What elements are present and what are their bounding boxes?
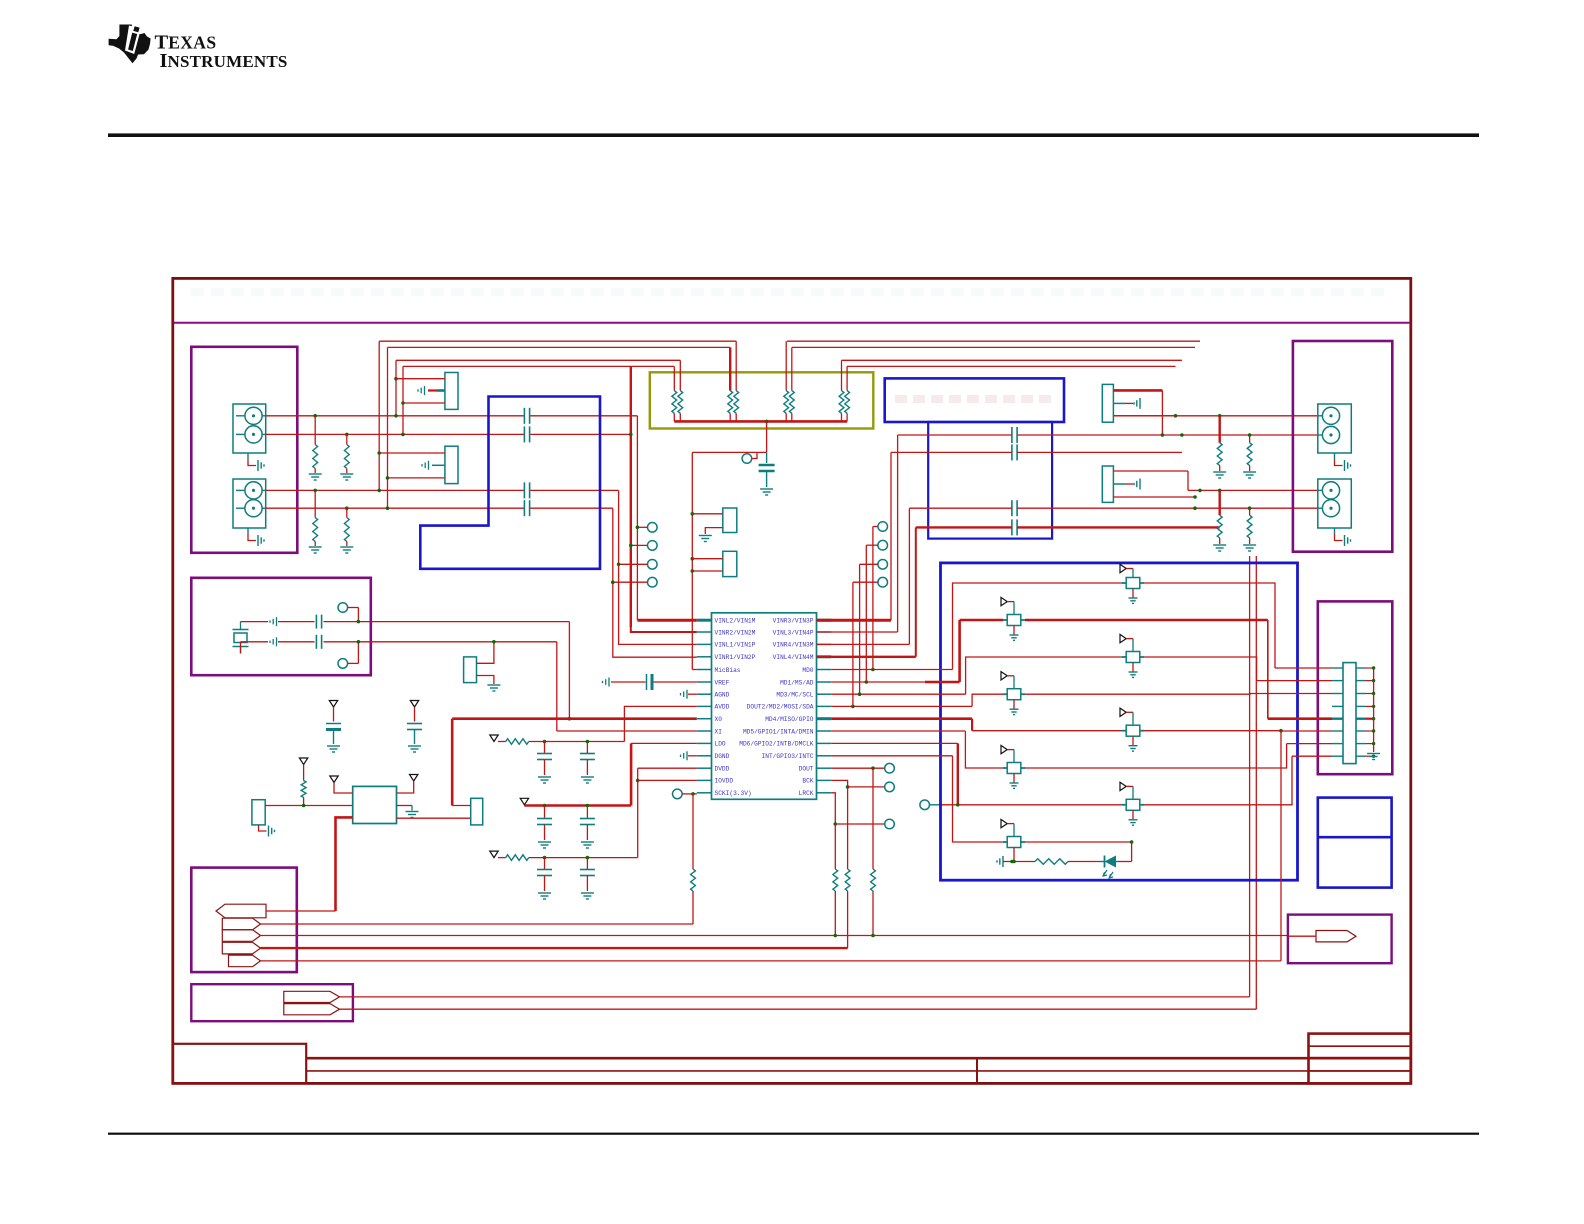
RCA jack J2 bbox=[233, 479, 266, 528]
LRCK pulldown R9 bbox=[834, 824, 836, 869]
regulator U2 bbox=[353, 786, 397, 823]
U1 right pin stub DOUT bbox=[817, 767, 832, 769]
svg-text:MicBias: MicBias bbox=[715, 667, 741, 674]
U1 left pin stub DGND bbox=[697, 755, 712, 757]
svg-text:MD1/MS/AD: MD1/MS/AD bbox=[780, 679, 814, 686]
FB1 right stub bbox=[1140, 582, 1144, 584]
H9 pin1 wire bbox=[1113, 470, 1188, 472]
title block rows bbox=[306, 1057, 1411, 1060]
H4 pin1 wire bbox=[692, 558, 723, 560]
FB6 right stub bbox=[1021, 767, 1025, 769]
IOVDD wire bbox=[638, 779, 697, 781]
header H5 (osc jumper) bbox=[464, 657, 477, 683]
U1 right pin stub LRCK bbox=[817, 792, 832, 794]
MD3 wire bbox=[831, 693, 965, 695]
arrow wire 1 bbox=[340, 996, 1250, 998]
bias resistor R1 bbox=[313, 414, 317, 418]
arrow right feed wire bbox=[1288, 935, 1316, 937]
svg-text:BCK: BCK bbox=[802, 778, 813, 785]
bus row D right bbox=[847, 365, 1176, 367]
arrow riser 2 bbox=[1255, 556, 1257, 1009]
aux group box (blue 2-row) bbox=[1318, 798, 1392, 888]
svg-text:XI: XI bbox=[715, 728, 723, 735]
bus drop wire 2 bbox=[387, 347, 389, 508]
micbias TP circle bbox=[742, 454, 752, 464]
crystal row2 gnd sym bbox=[269, 641, 271, 643]
J5 row 5 wire bbox=[1268, 717, 1332, 720]
H3 pin1 wire bbox=[692, 513, 723, 515]
bus row D left bbox=[403, 365, 674, 367]
RCA jack J4 bbox=[1318, 479, 1352, 528]
crystal row2 wire bbox=[241, 641, 269, 643]
net flag net3 bbox=[222, 930, 260, 942]
J3 ground bbox=[1334, 453, 1336, 459]
test point TP3 bbox=[648, 560, 658, 570]
U1 right pin stub INT/GPIO3/INTC bbox=[817, 755, 832, 757]
svg-text:VINL4/VIN4M: VINL4/VIN4M bbox=[773, 654, 814, 661]
MD1 riser thick bbox=[958, 620, 961, 682]
coupling cap C1 bbox=[523, 408, 525, 424]
RCA jack J1 bbox=[233, 404, 266, 453]
wire J1 ring row bbox=[266, 433, 525, 435]
FB3 left stub bbox=[1122, 656, 1126, 658]
bias resistor pair 4 bbox=[841, 360, 843, 390]
test point TP4 bbox=[648, 577, 658, 587]
arrow tag 1 bbox=[284, 991, 340, 1002]
U1 right pin stub VINL4/VIN4M bbox=[817, 655, 832, 658]
FB8 gnd bbox=[1013, 848, 1015, 862]
net flag VIN bbox=[216, 904, 266, 918]
U2 output wire bbox=[397, 817, 471, 819]
DGND gnd sym bbox=[680, 755, 682, 757]
MD4 riser bbox=[971, 719, 973, 731]
FB1 flag bbox=[1120, 564, 1126, 572]
svg-text:AGND: AGND bbox=[715, 692, 730, 699]
MD0 to FB1 bbox=[953, 583, 1123, 670]
H4 pin2 wire bbox=[692, 570, 723, 572]
J5 row5 riser bbox=[1267, 620, 1269, 719]
output jacks group box (right) bbox=[1293, 341, 1392, 552]
VINR4 drop bbox=[908, 508, 910, 644]
cap C10 bbox=[1011, 444, 1013, 460]
cap C11 bbox=[1011, 500, 1013, 516]
ferrite jumper FB1 bbox=[1126, 578, 1140, 589]
FB7 flag bbox=[1120, 782, 1126, 790]
XO branch vertical bbox=[451, 719, 454, 806]
wire ring1 right row bbox=[898, 434, 1012, 436]
header H8 bbox=[1102, 384, 1113, 422]
U2 bottom-left output thick bbox=[336, 817, 353, 911]
FB6 out bbox=[1025, 744, 1287, 768]
H8 pin1 thick wire bbox=[1113, 389, 1162, 392]
svg-text:DOUT: DOUT bbox=[799, 766, 814, 773]
AVDD cap Ca2 bbox=[586, 740, 590, 744]
H1 pin1 wire bbox=[396, 378, 445, 380]
wire J2 ring row bbox=[266, 507, 525, 509]
header H4 bbox=[723, 551, 737, 576]
header H9 bbox=[1102, 466, 1113, 502]
bias resistor R3 bbox=[313, 489, 317, 493]
J5 row 6 wire bbox=[1281, 730, 1332, 732]
FB5 gnd bbox=[1132, 736, 1134, 746]
FB2 right thick bbox=[1025, 619, 1268, 622]
faint title text strip bbox=[191, 288, 204, 296]
FB1 gnd bbox=[1132, 589, 1134, 599]
ferrite jumper FB7 bbox=[1126, 799, 1140, 810]
bias resistor R2 bbox=[345, 433, 349, 437]
MD0 wire bbox=[831, 669, 952, 671]
U1 right pin stub MD4/MISO/GPIO bbox=[817, 717, 832, 720]
bulk cap Cd2 bbox=[410, 701, 418, 708]
U1 left pin stub VINL1/VIN1P bbox=[697, 643, 712, 645]
crystal terminal TP circle bottom bbox=[338, 659, 348, 669]
XO thick row bbox=[452, 717, 697, 720]
FB8 flag bbox=[1001, 819, 1007, 827]
H2 pin1 wire bbox=[379, 452, 445, 454]
svg-text:X0: X0 bbox=[715, 716, 723, 723]
test point TP2 bbox=[648, 541, 658, 551]
MD1 wire bbox=[831, 681, 925, 683]
J5 row 8 right stub bbox=[1356, 755, 1366, 757]
J5 row 8 wire bbox=[1292, 755, 1332, 757]
H3 pin2 gnd bbox=[705, 528, 723, 534]
VINR3 drop bbox=[890, 452, 892, 620]
output header H7 bbox=[471, 798, 483, 825]
FB5 riser down bbox=[1280, 731, 1282, 961]
ferrite jumper FB6 bbox=[1007, 763, 1021, 774]
SCKI TP circle bbox=[673, 789, 683, 799]
net flag wire 2 bbox=[261, 923, 694, 925]
svg-text:VREF: VREF bbox=[715, 679, 730, 686]
FB6 left stub bbox=[1003, 767, 1007, 769]
test point TP1 bbox=[648, 523, 658, 533]
connector J5 body bbox=[1343, 663, 1356, 764]
J5 row 3 right stub bbox=[1356, 693, 1366, 695]
FB7 right stub bbox=[1140, 804, 1144, 806]
term resistor R11 bbox=[1249, 435, 1251, 443]
crystal row1 gnd sym bbox=[269, 620, 271, 622]
H5 pin1 wire bbox=[477, 642, 494, 664]
U1 right pin stub MD1/MS/AD bbox=[817, 681, 832, 683]
bus row B right bbox=[792, 346, 1195, 348]
LDO cap Cb2 bbox=[586, 804, 590, 808]
J5 row 1 left stub bbox=[1332, 667, 1343, 669]
BCK wire and TP bbox=[831, 780, 847, 787]
AVDD series resistor bbox=[506, 739, 529, 745]
U1 left pin stub XI bbox=[697, 730, 712, 732]
FB3 flag bbox=[1120, 634, 1126, 642]
FB8 left stub bbox=[1003, 841, 1007, 843]
wire XI net vertical bbox=[556, 642, 558, 731]
TP5 bbox=[878, 522, 888, 532]
FB6 flag bbox=[1001, 745, 1007, 753]
wire XI row bbox=[557, 730, 697, 732]
svg-text:DGND: DGND bbox=[715, 753, 730, 760]
crystal Y1 bbox=[233, 629, 249, 631]
micbias vertical bbox=[691, 452, 693, 669]
LRCK wire and TP bbox=[831, 793, 835, 824]
FB2 right stub bbox=[1021, 619, 1025, 621]
wire ring2 right row bbox=[909, 507, 1012, 509]
wire VINR1 drop bbox=[613, 508, 697, 657]
H8 pin3 wire bbox=[1113, 415, 1175, 417]
MD5 to FB6 bbox=[965, 731, 1003, 768]
FB7 gnd bbox=[1132, 810, 1134, 820]
micbias wire bbox=[692, 451, 766, 453]
bus row C right bbox=[842, 359, 1182, 361]
svg-text:DOUT2/MD2/MOSI/SDA: DOUT2/MD2/MOSI/SDA bbox=[747, 704, 814, 711]
MD6 wire bbox=[831, 742, 958, 744]
J5 right bus bbox=[1373, 668, 1375, 752]
pullup resistor R5 bbox=[299, 758, 307, 765]
U1 left pin stub SCKI(3.3V) bbox=[697, 792, 712, 794]
AVDD vertical bbox=[624, 706, 696, 741]
coupling cap C3 bbox=[523, 482, 525, 498]
DMIC group box (blue, top) bbox=[885, 378, 1064, 422]
ferrite jumper FB8 bbox=[1007, 837, 1021, 848]
DVDD rail bbox=[498, 857, 506, 859]
U1 right pin stub VINR4/VIN3M bbox=[817, 643, 832, 645]
U1 right pin stub MD3/MC/SCL bbox=[817, 693, 832, 695]
control header group box (purple) bbox=[1318, 601, 1393, 774]
net flag wire 5 bbox=[261, 960, 1282, 962]
TP8 bbox=[878, 577, 888, 587]
J5 row 3 left stub bbox=[1332, 693, 1343, 695]
TP7 bbox=[878, 560, 888, 570]
net flag wire 4 thick bbox=[261, 947, 848, 949]
svg-text:AVDD: AVDD bbox=[715, 704, 730, 711]
crystal group box bbox=[191, 578, 370, 675]
level shifter group box (big blue) bbox=[941, 563, 1298, 880]
VINL3 drop bbox=[897, 435, 899, 632]
U1 left pin stub MicBias bbox=[697, 669, 712, 671]
svg-text:SCKI(3.3V): SCKI(3.3V) bbox=[715, 790, 752, 797]
FB4 flag bbox=[1001, 672, 1007, 680]
wire cap row pin1 bbox=[891, 451, 1012, 453]
AVDD cap Ca1 bbox=[543, 740, 547, 744]
FB2 left stub bbox=[1003, 619, 1007, 621]
FB4 right stub bbox=[1021, 693, 1025, 695]
svg-text:VINR1/VIN2P: VINR1/VIN2P bbox=[715, 654, 756, 661]
header H1 bbox=[445, 373, 458, 410]
H9 mid gnd bbox=[1113, 483, 1126, 485]
U1 left pin stub AGND bbox=[697, 693, 712, 695]
J2 ground bbox=[247, 528, 249, 534]
J1 ground bbox=[247, 453, 249, 459]
wire J1 tip row bbox=[266, 415, 525, 417]
svg-text:VINL2/VIN1M: VINL2/VIN1M bbox=[715, 618, 756, 625]
U1 left pin stub VREF bbox=[697, 681, 712, 683]
bus row A left bbox=[379, 340, 736, 342]
svg-text:DVDD: DVDD bbox=[715, 766, 730, 773]
J5 gnd bbox=[1367, 753, 1380, 755]
FB1 left stub bbox=[1122, 582, 1126, 584]
svg-text:LRCK: LRCK bbox=[799, 790, 814, 797]
coupling cap C2 bbox=[523, 426, 525, 442]
FB5 out bbox=[1144, 730, 1281, 732]
J5 row 8 left stub bbox=[1332, 755, 1343, 757]
MD5 wire bbox=[831, 730, 965, 732]
H8 mid gnd bbox=[1113, 402, 1126, 404]
coupling cap C4 bbox=[523, 500, 525, 516]
J5 row 1 right stub bbox=[1356, 667, 1366, 669]
bus drop wire 4 bbox=[402, 366, 404, 434]
arrow tag right bbox=[1316, 931, 1356, 942]
net flag net4 bbox=[222, 942, 260, 954]
svg-text:VINL1/VIN1P: VINL1/VIN1P bbox=[715, 642, 756, 649]
input jacks group box (left) bbox=[191, 347, 297, 553]
GPIO TP circle bbox=[920, 800, 930, 810]
bus row B left bbox=[388, 346, 731, 348]
LED resistor R14 bbox=[1035, 859, 1068, 865]
bulk cap Cd1 (polarized) bbox=[329, 701, 337, 708]
crystal terminal TP circle top bbox=[338, 603, 348, 613]
arrow riser 1 bbox=[1249, 556, 1251, 997]
svg-text:VINR3/VIN3P: VINR3/VIN3P bbox=[773, 618, 814, 625]
U1 left pin stub DVDD bbox=[697, 767, 712, 769]
U1 left pin stub X0 bbox=[697, 718, 712, 720]
term resistor R12 bbox=[1218, 490, 1220, 515]
INT to FB8 bbox=[953, 756, 1004, 842]
MD4 thick wire bbox=[831, 717, 972, 720]
bus row C left bbox=[396, 359, 680, 361]
BCK pulldown R8 bbox=[847, 787, 849, 869]
title block left box bbox=[173, 1044, 306, 1084]
J5 row 4 right stub bbox=[1356, 705, 1366, 707]
DOUT wire and TP bbox=[831, 767, 885, 769]
wire VINL2 drop bbox=[636, 416, 638, 620]
SCKI pulldown resistor R6 bbox=[692, 794, 694, 869]
regulator input header H6 bbox=[252, 800, 265, 825]
U1 right pin stub MD5/GPIO1/INTA/DMIN bbox=[817, 730, 832, 732]
U1 left pin stub IOVDD bbox=[697, 779, 712, 781]
ADC IC U1 bbox=[712, 613, 817, 800]
FB5 flag bbox=[1120, 708, 1126, 716]
J5 row 7 left stub bbox=[1332, 743, 1343, 745]
FB3 gnd bbox=[1132, 663, 1134, 673]
MD6 riser thick bbox=[957, 743, 959, 804]
LDO cap Cb1 bbox=[543, 804, 547, 808]
MD3 to FB3 bbox=[966, 657, 1122, 694]
net flag net2 bbox=[222, 918, 260, 930]
J5 row 4 left stub bbox=[1332, 705, 1343, 707]
bias resistor pair 2 bbox=[729, 347, 731, 390]
DVDD cap Cc1 bbox=[543, 856, 547, 860]
load cap C5 bbox=[315, 615, 317, 629]
svg-text:MD3/MC/SCL: MD3/MC/SCL bbox=[776, 692, 813, 699]
VINL4 drop bbox=[915, 527, 917, 656]
U1 left pin stub VINR1/VIN2P bbox=[697, 656, 712, 658]
AVDD flag bbox=[490, 735, 498, 742]
H2 pin3 wire bbox=[388, 477, 445, 479]
J5 row 7 wire bbox=[1287, 743, 1332, 745]
H6 gnd bbox=[259, 825, 267, 831]
svg-text:IOVDD: IOVDD bbox=[715, 778, 734, 785]
FB4 out bbox=[1025, 693, 1250, 696]
J5 row 5 right stub bbox=[1356, 718, 1366, 720]
ferrite jumper FB4 bbox=[1007, 689, 1021, 700]
input filter group box (blue) bbox=[420, 397, 600, 569]
INT wire bbox=[831, 755, 952, 757]
LDO vertical thick bbox=[631, 742, 697, 744]
J5 row 2 left stub bbox=[1332, 680, 1343, 682]
U1 right pin stub DOUT2/MD2/MOSI/SDA bbox=[817, 705, 832, 707]
J5 row 1 wire bbox=[1275, 667, 1332, 669]
net flag wire 1 bbox=[266, 910, 336, 912]
bias centre tap bbox=[765, 420, 769, 424]
FB2 gnd bbox=[1013, 626, 1015, 636]
wire tip1 right row bbox=[1113, 415, 1317, 417]
VREF decoupling cap C8 bbox=[611, 681, 646, 683]
H9 pin3 wire bbox=[1113, 496, 1195, 498]
RCA jack J3 bbox=[1318, 404, 1352, 453]
DVDD cap Cc2 bbox=[586, 856, 590, 860]
TP6 bbox=[878, 540, 888, 550]
MD3 TP riser bbox=[859, 564, 861, 694]
U1 right pin stub MD0 bbox=[817, 669, 832, 671]
bias network group box (olive) bbox=[650, 372, 874, 428]
FB8 right stub bbox=[1021, 841, 1025, 843]
FB4 left stub bbox=[1003, 693, 1007, 695]
output arrows group box bbox=[191, 984, 353, 1021]
U1 left pin stub VINL2/VIN1M bbox=[697, 619, 712, 622]
svg-text:VINR2/VIN2M: VINR2/VIN2M bbox=[715, 629, 756, 636]
H2 mid stub bbox=[432, 464, 445, 466]
power net flags group box bbox=[191, 868, 296, 973]
J5 row 3 wire bbox=[1250, 693, 1332, 695]
DOUT2 wire bbox=[831, 705, 972, 707]
MD1 TP riser bbox=[865, 545, 867, 682]
wire J2 tip row bbox=[266, 489, 525, 491]
ferrite jumper FB3 bbox=[1126, 652, 1140, 663]
svg-text:INSTRUMENTS: INSTRUMENTS bbox=[160, 50, 288, 72]
U2 flag right bbox=[410, 775, 418, 782]
U1 right pin stub MD6/GPIO2/INTB/DMCLK bbox=[817, 742, 832, 744]
FB7 left stub bbox=[1122, 804, 1126, 806]
DOUT2 to FB4 bbox=[972, 694, 1003, 706]
FB2 flag bbox=[1001, 597, 1007, 605]
U1 left pin stub AVDD bbox=[697, 705, 712, 707]
J5 row 7 right stub bbox=[1356, 743, 1366, 745]
ferrite jumper FB2 bbox=[1007, 615, 1021, 626]
schematic frame border bbox=[173, 278, 1411, 1083]
AVDD rail bbox=[498, 741, 506, 743]
FB4 gnd bbox=[1013, 700, 1015, 710]
vref cap C7 bbox=[766, 452, 768, 463]
H5 pin2 gnd bbox=[477, 676, 494, 685]
FB5 right stub bbox=[1140, 730, 1144, 732]
svg-text:MD0: MD0 bbox=[802, 667, 813, 674]
bias resistor pair 1 bbox=[673, 366, 675, 390]
FB3 right stub bbox=[1140, 656, 1144, 658]
H1 pin3 wire bbox=[403, 402, 445, 404]
U1 right pin stub BCK bbox=[817, 779, 832, 781]
frame title separator line bbox=[174, 322, 1410, 324]
DOUT pulldown R7 bbox=[872, 768, 874, 869]
J5 row 2 wire bbox=[1257, 680, 1332, 682]
title block divider bbox=[976, 1058, 978, 1083]
svg-text:VINL3/VIN4P: VINL3/VIN4P bbox=[773, 629, 814, 636]
wire cap row pin4 thick bbox=[916, 526, 1012, 528]
J4 ground bbox=[1334, 528, 1336, 534]
svg-text:MD5/GPIO1/INTA/DMIN: MD5/GPIO1/INTA/DMIN bbox=[743, 728, 814, 735]
J5 row 2 right stub bbox=[1356, 680, 1366, 682]
AGND gnd sym bbox=[680, 693, 682, 695]
FB6 gnd bbox=[1013, 774, 1015, 784]
bus drop wire 3 bbox=[395, 360, 397, 416]
U2 enable flag left bbox=[330, 776, 338, 783]
header H3 bbox=[723, 508, 737, 533]
